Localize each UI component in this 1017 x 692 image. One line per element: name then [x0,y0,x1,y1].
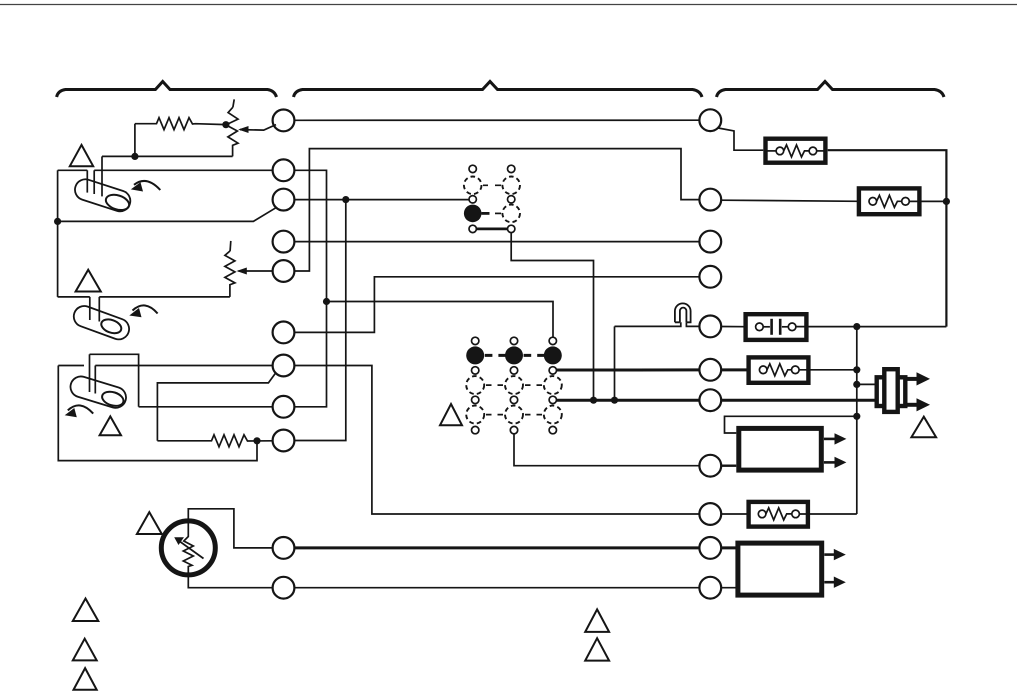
terminal 1R [699,109,721,131]
terminal 10R [699,537,721,559]
plug connector inner [884,369,897,412]
junction dot R2 right [253,437,260,444]
mercury switch S2 leads [89,297,91,320]
triangle note 6 [73,599,99,622]
dash links row6 [486,414,542,416]
left bus vertical [57,170,59,297]
junction dot x856.8 top [853,323,860,330]
wire y221 to 3L [58,208,276,222]
wire y354 jog [90,354,139,407]
wire 7L to 9R [294,366,699,515]
brace middle section [294,82,703,98]
wire 1R to box R3 [718,128,763,150]
terminal 2L [273,159,295,181]
dash links row4 [486,384,542,386]
wire 2L right to x326.5 bus [294,170,326,406]
right terminal circles column [699,109,721,598]
wire 4L to 3R [294,241,699,243]
switch3 lead A riser [89,354,91,392]
junction dot P1 / R1 [222,121,229,128]
thick wire 7R to plug [721,399,874,402]
rotate arrow S1 [134,181,160,190]
resistor R2 [157,435,272,447]
thick dash links row2 [485,354,545,357]
thick stub and dash row4 [482,212,490,215]
brace right section [717,82,945,98]
terminal 8R [699,455,721,477]
resistor box R6 [749,502,808,527]
switch3 box left vertical [58,366,257,461]
thick wire row3 to 6R [557,368,700,371]
wire 5L to 2R via top run [294,149,699,271]
triangle note thermistor [137,512,162,534]
junction dot y400 a [590,397,597,404]
connector block A column 1 [469,165,476,172]
wire 5R to cap box [721,326,745,328]
relay box K2 [738,543,822,595]
wire 6R to box R5 [721,368,748,371]
mercury switch S2 capsule [71,303,132,342]
switch3 lead B [94,366,96,394]
junction dot R1/switch1 [131,153,138,160]
triangle note 8 [74,668,97,690]
right mid bus vertical [856,327,858,514]
triangle note 5 [911,417,936,438]
thick wire row5 to 7R [557,399,700,402]
wire x346 vertical to 9L [294,200,345,441]
wire col2 bottom to 8R [514,434,699,466]
connector block B column 1 [472,337,479,344]
rotate arrow S2 [133,305,158,313]
terminal 1L [273,110,295,132]
wire 7L diagonal to resistor R2 [157,373,275,441]
mercury blob S1 [104,192,131,213]
triangle note 3 [100,416,121,435]
terminal 4R [699,266,721,288]
wire wrap into relay box K1 [725,416,857,433]
wiper arrow P2 from 5L [239,270,273,272]
lamp branch vertical [614,326,616,400]
junction dot y384.4 [853,381,860,388]
wire 10R into relay box K2 [721,546,738,549]
triangle note 7 [73,639,97,661]
junction dot y400 b [611,397,618,404]
wire to plug upper [857,383,875,385]
mercury blob S2 [99,317,123,336]
wire 9R to box R6 [721,513,748,515]
terminal 4L [273,231,295,253]
terminal 3L [273,189,295,211]
terminal 11L [273,577,295,599]
wire box R5 to bus [799,369,857,371]
K1 arrow upper [824,438,836,441]
left terminal circles column [273,110,295,599]
potentiometer P1 top stub [233,99,234,107]
triangle note 4 [440,404,462,425]
K2 arrow lower [824,581,834,584]
junction dot left bus [54,218,61,225]
terminal 9R [699,503,721,525]
wire 8L left [139,406,273,408]
mercury switch S3 capsule [68,374,129,411]
wire 3L to connector block A [294,199,469,201]
resistor box R3 [766,139,826,163]
terminal 7L [273,355,295,377]
resistor R1 [135,118,226,130]
brace left section [57,82,277,98]
wire y301.5 to cluster2 top [327,302,554,338]
plug arrow upper [908,377,918,381]
terminal 8L [273,396,295,418]
terminal 2R [699,189,721,211]
wire 8R into K1 [721,465,736,467]
thermistor bottom lead [188,575,272,588]
thermistor arrow [178,540,204,559]
wire 11L to 11R [294,587,699,589]
wire 11R into K2 [721,587,738,589]
connector block B column 2 [510,337,517,344]
mercury switch S1 leads [86,170,88,192]
thick wire 10L to 10R [294,546,699,549]
terminal 5L [273,260,295,282]
wire to lamp [615,322,700,326]
lamp symbol [675,303,691,322]
capacitor box C1 [746,314,807,340]
junction dot x346 [342,196,349,203]
mercury switch S1 capsule [72,177,133,214]
wire y365.5 left segment (box top) [58,365,84,367]
junction dot x326.5 y301.5 [323,298,330,305]
thick link row5 [476,227,507,230]
wire y365.5 right segment to 7L [95,365,272,367]
resistor box R4 [859,188,920,214]
resistor box R5 [749,357,809,382]
triangle note 2 [76,270,101,292]
thermistor TH1 outer circle [161,521,215,575]
wire R1 left lead down [134,124,136,157]
potentiometer P1 body [226,107,238,156]
relay box K1 [739,428,822,470]
connector block B column 3 [549,337,556,344]
thermistor top lead jog [188,509,272,548]
wire y296.9 left segment [58,296,90,298]
wire cap box to corner [796,326,947,328]
wire 6L to 4R [294,277,699,333]
wiper arrow P1 from 1L [240,125,276,131]
junction dot y201.5 [943,198,950,205]
potentiometer P2 body [225,251,235,297]
triangle note 9 [585,609,609,632]
wire y296.9 right segment to P2 bottom [99,296,230,298]
wire box R3 to right bus [828,150,947,326]
terminal 3R [699,231,721,253]
terminal 6R [699,359,721,381]
wire y170 left segment [58,169,88,171]
wire cluster1 down to y260 [511,233,593,401]
wire 2R to box R4 [721,200,859,201]
wire y156 switch1 to P1 bottom [102,155,233,157]
terminal 11R [699,577,721,599]
K2 arrow upper [824,553,834,556]
plug arrow lower [908,403,918,407]
K1 arrow lower [824,461,836,464]
wire y170 right segment to 2L [94,169,272,171]
rotate arrow S3 [68,405,93,413]
terminal 10L [273,537,295,559]
connector block A column 2 [508,165,515,172]
terminal 6L [273,322,295,344]
triangle note 1 [70,145,93,166]
wire box R6 up right bus [799,513,856,515]
wire 1L to 1R [294,119,699,121]
terminal 9L [273,430,295,452]
wire box R4 to right bus [909,200,946,202]
thermistor zigzag [183,522,193,575]
junction dot y416.3 [853,413,860,420]
terminal 7R [699,389,721,411]
junction dot y369.8 [853,366,860,373]
plug connector outer [877,377,906,406]
terminal 5R [699,316,721,338]
mercury blob S3 [100,389,125,408]
page top rule [0,4,1017,6]
potentiometer P2 top stub [229,241,232,251]
dash link row2 [483,184,501,186]
triangle note 10 [585,638,609,660]
